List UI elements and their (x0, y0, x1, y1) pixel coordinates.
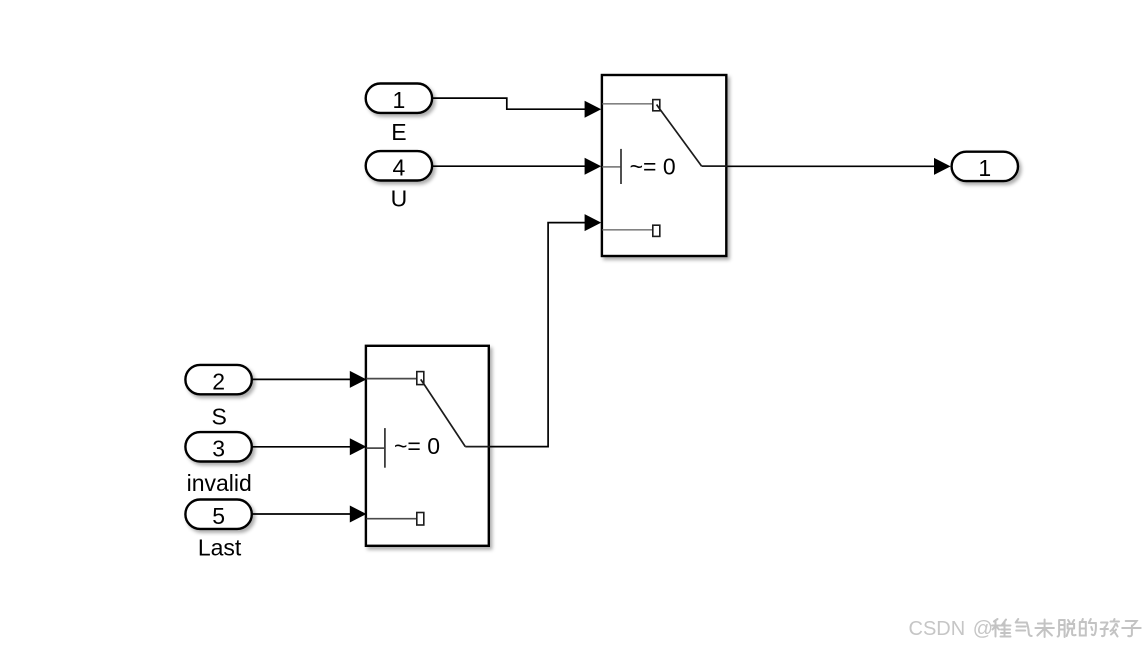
U1 input-1 terminal box (653, 100, 660, 111)
switch block U2 (lower) (366, 346, 489, 546)
inport 2 (S) (185, 365, 251, 395)
inport 1 (E) (366, 84, 432, 114)
svg-text:3: 3 (212, 436, 225, 462)
switch block U1 (upper) (602, 75, 726, 256)
glyph 未 (1035, 620, 1054, 638)
wire invalid to U2 in2 (252, 446, 350, 448)
U1 input-1 lead (603, 103, 653, 105)
wire U to U1 in2 (432, 165, 585, 167)
svg-text:@: @ (973, 618, 993, 640)
U2 input-2 port arrow (350, 438, 367, 455)
U1 input-3 terminal box (653, 225, 660, 236)
outport arrow (934, 158, 951, 175)
U1 input-2 lead (603, 166, 622, 168)
U2 switch arm diagonal (421, 379, 466, 446)
wire U1 out to outport (728, 165, 935, 167)
wire U2 out to U1 in3 (490, 223, 585, 447)
svg-text:S: S (212, 403, 227, 429)
U1 switch arm diagonal (657, 105, 702, 167)
svg-text:1: 1 (978, 155, 991, 181)
svg-text:2: 2 (212, 368, 225, 394)
glyph 子 (1122, 621, 1141, 636)
U2 threshold tick (384, 428, 386, 468)
U2 output segment (465, 446, 490, 448)
U1 output segment (702, 165, 728, 167)
svg-text:~= 0: ~= 0 (630, 154, 676, 180)
U1 input-2 port arrow (585, 158, 602, 175)
U2 input-1 lead (367, 378, 417, 380)
wire S to U2 in1 (252, 378, 350, 380)
inport 4 (U) (366, 151, 432, 181)
U2 input-3 terminal box (417, 513, 424, 526)
U1 input-3 lead (603, 229, 653, 231)
svg-text:5: 5 (212, 503, 225, 529)
svg-text:Last: Last (198, 535, 242, 561)
glyph 的 (1080, 619, 1096, 636)
inport 5 (Last) (185, 500, 251, 530)
watermark CJK glyphs (approximation) (992, 619, 1141, 637)
svg-text:1: 1 (393, 87, 406, 113)
glyph 脱 (1058, 620, 1076, 637)
inport 3 (invalid) (185, 432, 251, 462)
U2 input-3 port arrow (350, 506, 367, 523)
U1 input-1 port arrow (585, 101, 602, 118)
glyph 孩 (1101, 619, 1120, 637)
U1 input-3 port arrow (585, 214, 602, 231)
U2 input-2 lead (367, 447, 385, 449)
svg-text:U: U (391, 186, 408, 212)
U2 input-3 lead (367, 518, 417, 520)
outport 1 (952, 152, 1018, 182)
glyph 稚 (992, 619, 1011, 637)
svg-text:CSDN: CSDN (909, 618, 966, 640)
svg-text:4: 4 (393, 155, 406, 181)
watermark CSDN (909, 618, 994, 640)
svg-text:~= 0: ~= 0 (394, 433, 440, 459)
U2 input-1 terminal box (417, 372, 424, 385)
svg-text:E: E (391, 119, 406, 145)
U2 input-1 port arrow (350, 371, 367, 388)
wire Last to U2 in3 (252, 513, 350, 515)
wire E to U1 in1 (432, 98, 585, 109)
U1 threshold tick (620, 149, 622, 184)
svg-text:invalid: invalid (187, 470, 252, 496)
glyph 气 (1016, 619, 1032, 636)
